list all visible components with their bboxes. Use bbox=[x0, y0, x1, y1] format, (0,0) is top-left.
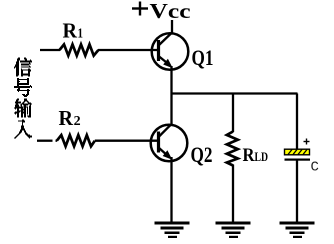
svg-text:Q1: Q1 bbox=[192, 45, 214, 70]
svg-text:R: R bbox=[243, 145, 255, 166]
svg-text:LD: LD bbox=[255, 149, 269, 164]
svg-text:Q2: Q2 bbox=[191, 142, 213, 167]
svg-text:2: 2 bbox=[74, 114, 81, 129]
svg-text:1: 1 bbox=[78, 26, 84, 41]
svg-text:R: R bbox=[63, 18, 78, 42]
svg-text:Vcc: Vcc bbox=[150, 0, 191, 23]
svg-text:R: R bbox=[59, 106, 74, 130]
svg-text:C: C bbox=[311, 160, 319, 176]
